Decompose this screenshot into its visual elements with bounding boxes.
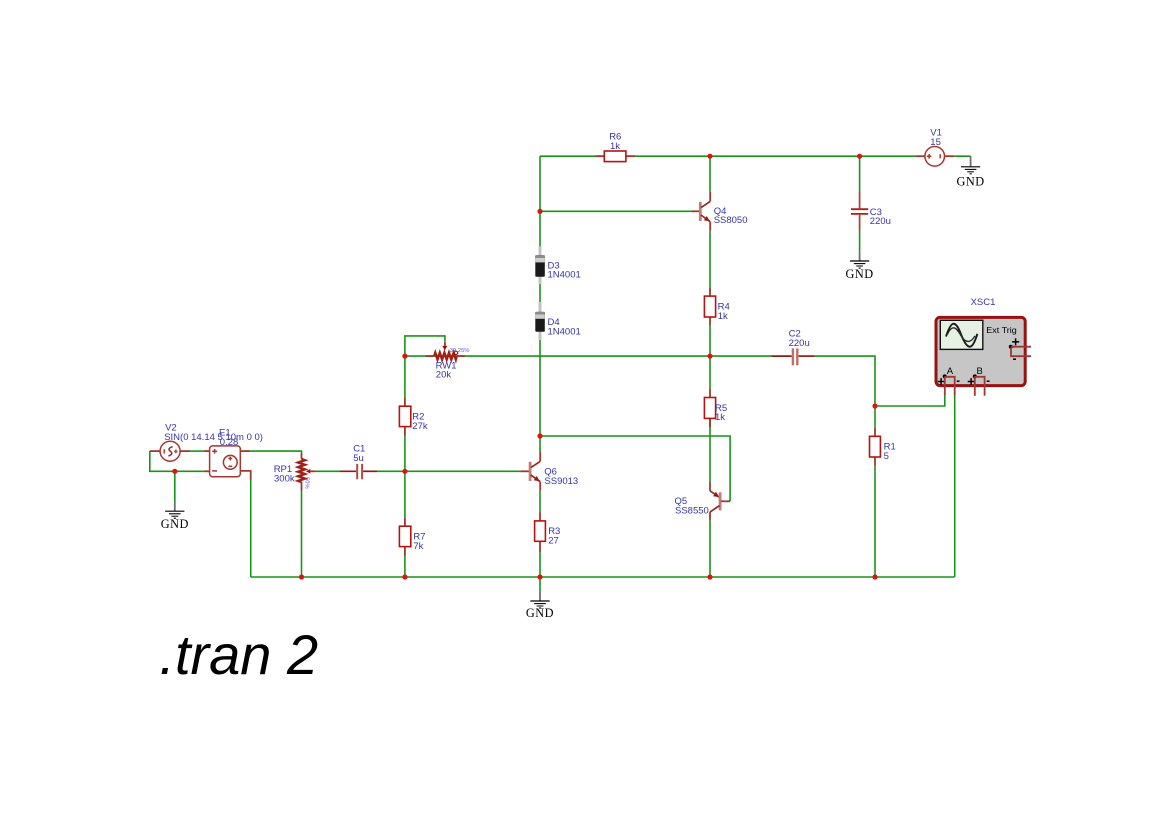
svg-text:39.25%: 39.25% (450, 348, 470, 354)
voltage source V2 (150, 423, 263, 462)
svg-text:20k: 20k (436, 370, 452, 381)
svg-text:5u: 5u (353, 453, 364, 464)
wire Q5 collector to bottom rail (709, 520, 711, 577)
svg-text:27k: 27k (412, 421, 428, 432)
svg-text:7k: 7k (413, 541, 423, 552)
svg-text:GND: GND (526, 606, 554, 620)
directive .tran 2 (159, 623, 318, 686)
ground (bottom center) (526, 591, 554, 620)
node R1 / scope A (872, 403, 877, 408)
node Q5 collector / bottom rail (707, 574, 712, 579)
wire R2 column upper (404, 356, 406, 397)
resistor R5 (704, 389, 727, 428)
resistor R1 (870, 428, 896, 466)
wire R1 top (874, 406, 876, 428)
svg-text:220u: 220u (870, 216, 891, 227)
resistor R4 (704, 287, 729, 326)
svg-text:XSC1: XSC1 (971, 297, 996, 308)
node R1 / bottom rail (872, 574, 877, 579)
node RP1 / bottom rail (299, 574, 304, 579)
capacitor C1 (340, 444, 377, 480)
svg-text:.tran 2: .tran 2 (159, 623, 318, 686)
svg-text:Ext Trig: Ext Trig (986, 326, 1017, 335)
potentiometer RP1 (274, 453, 315, 491)
node V2 minus / E1 minus / ground (172, 469, 177, 474)
resistor R6 (595, 132, 635, 162)
dependent source E1 (204, 427, 251, 479)
node Q6 collector / Q5 base wire (537, 433, 542, 438)
svg-text:SS9013: SS9013 (544, 476, 578, 487)
svg-text:27: 27 (548, 536, 559, 547)
wire Q6 collector lead up (539, 436, 541, 451)
resistor R3 (535, 512, 561, 552)
svg-text:1k: 1k (718, 311, 728, 322)
transistor Q6 (520, 451, 578, 491)
wire base rail RP1 wiper to Q6 (315, 470, 340, 472)
wire C3 branch upper (859, 156, 861, 192)
oscilloscope XSC1 (936, 297, 1031, 396)
wire bottom rail (251, 576, 955, 578)
wire R2 to base rail (404, 436, 406, 472)
capacitor C2 (772, 328, 815, 365)
ground (top right, V1) (957, 156, 985, 188)
wire Q6 collector node to Q5 base (540, 436, 730, 501)
resistor R7 (399, 517, 425, 555)
svg-text:220u: 220u (789, 338, 810, 349)
ground (under C3) (846, 251, 874, 281)
wire V2 plus to E1 (190, 450, 204, 452)
wire mid rail (405, 355, 772, 357)
svg-text:GND: GND (846, 267, 874, 281)
svg-text:15: 15 (930, 137, 941, 148)
svg-text:1k: 1k (715, 412, 725, 423)
wire R1 node to scope channel A plus (875, 396, 945, 406)
svg-text:B: B (977, 366, 983, 377)
node R7 / bottom rail (402, 574, 407, 579)
svg-text:5: 5 (884, 451, 889, 462)
wire V2 ground stem (174, 471, 176, 501)
wire V1 to ground link (954, 155, 970, 157)
wire R5 to Q5 emitter (709, 418, 711, 482)
resistor R2 (399, 397, 427, 435)
svg-text:SS8050: SS8050 (714, 215, 748, 226)
transistor Q5 (675, 482, 731, 520)
wire R7 to bottom rail (404, 556, 406, 578)
capacitor C3 (851, 192, 891, 231)
diode D3 (535, 246, 580, 284)
svg-text:1N4001: 1N4001 (548, 326, 581, 337)
node mid rail / RW1 / R2 (402, 354, 407, 359)
diode D4 (535, 302, 580, 340)
node top rail / Q4 collector (707, 154, 712, 159)
svg-text:GND: GND (957, 174, 985, 188)
node base rail / R2 / R7 (402, 469, 407, 474)
wire top rail (540, 155, 916, 157)
wire C1 to Q6 base (377, 470, 520, 472)
wire base rail to R7 (404, 471, 406, 517)
wire Q4 base to diode column (540, 210, 692, 212)
node R3 / ground / bottom rail (537, 574, 542, 579)
potentiometer RW1 (425, 342, 469, 381)
svg-text:1N4001: 1N4001 (548, 270, 581, 281)
svg-text:SIN(0 14.14 5 10m 0 0): SIN(0 14.14 5 10m 0 0) (164, 432, 263, 443)
wire scope channel A minus to bottom rail (954, 396, 956, 577)
wire V2 left loop (150, 451, 204, 471)
wire Q4 emitter to R4 (709, 231, 711, 287)
transistor Q4 (692, 192, 748, 231)
wire diode column (539, 211, 541, 436)
wire RP1 to bottom rail (301, 491, 303, 578)
node mid rail / R5 column (707, 354, 712, 359)
svg-text:50%: 50% (304, 477, 310, 489)
wire top rail down to diode column corner (539, 156, 541, 211)
wire C2 to right corner (815, 356, 876, 406)
wire RW1 wiper loop (405, 336, 445, 356)
svg-text:GND: GND (161, 517, 189, 531)
wire E1 output to RP1 (250, 451, 301, 453)
wire R1 to bottom rail (874, 466, 876, 578)
wire Q6 emitter to R3 (539, 491, 541, 512)
voltage source V1 (916, 128, 954, 166)
svg-text:0.28: 0.28 (220, 437, 239, 448)
wire Q4 collector to top rail (709, 156, 711, 192)
svg-text:1k: 1k (610, 141, 620, 152)
wire mid rail to R5 (709, 356, 711, 389)
svg-text:SS8550: SS8550 (675, 505, 709, 516)
wire bottom ground stem (539, 577, 541, 591)
node top rail / C3 (857, 154, 862, 159)
wire E1 bottom output drop (250, 480, 252, 578)
wire R3 to bottom rail (539, 552, 541, 577)
svg-text:300k: 300k (274, 473, 295, 484)
svg-text:A: A (947, 366, 954, 377)
wire R4 to mid rail (709, 326, 711, 356)
ground (under V2) (161, 502, 189, 532)
node Q4 base / diode column (537, 209, 542, 214)
wire C3 branch lower (859, 231, 861, 252)
